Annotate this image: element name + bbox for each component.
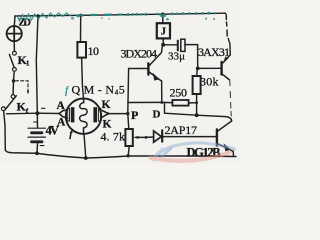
watermark teal dashes on rail bbox=[76, 15, 123, 16]
resistor 250 bbox=[172, 100, 188, 106]
potentiometer 4.7k bbox=[125, 114, 146, 156]
wire right column dashes bbox=[227, 22, 230, 42]
gas sensor QM-N5 body bbox=[66, 99, 101, 134]
node wiper-diode bbox=[145, 136, 148, 139]
transistor Q4 DG12B bbox=[217, 121, 234, 156]
capacitor 33u bbox=[163, 39, 197, 51]
node top rail x38 bbox=[36, 14, 39, 17]
node Q2 base junction bbox=[196, 67, 200, 71]
watermark logo bottom right bbox=[149, 143, 236, 161]
wire right column top corner bbox=[225, 13, 226, 19]
node 30k-D bbox=[195, 113, 199, 117]
node battery top bbox=[35, 111, 39, 115]
transistor Q1 3DX204 bbox=[129, 45, 163, 103]
scan noise overlay bbox=[0, 0, 240, 164]
sensor right electrode bbox=[93, 107, 100, 122]
diode 2AP17 bbox=[146, 130, 216, 142]
wire battery bottom bbox=[36, 142, 39, 154]
sensor QM-N5 leads A bbox=[59, 110, 68, 118]
sensor leads K bbox=[101, 110, 109, 118]
wire left rail lower bbox=[4, 111, 6, 150]
switch Kt bbox=[2, 95, 17, 111]
watermark teal scribble top left bbox=[17, 13, 71, 21]
wire sensor top f bbox=[82, 58, 84, 99]
switch K1 bbox=[9, 51, 16, 71]
resistor 10 bbox=[77, 42, 86, 58]
node battery bottom rail bbox=[35, 151, 39, 155]
wire bottom rail bbox=[5, 150, 236, 158]
wire D line to Q4 collector bbox=[197, 115, 232, 121]
wire horizontal battery node bbox=[7, 112, 38, 115]
wire left rail upper bbox=[13, 16, 16, 26]
sensor heater coil bbox=[80, 99, 88, 135]
node emitter-250 bbox=[160, 101, 163, 104]
wire D drop and D line bbox=[165, 103, 197, 116]
node sensor f rail bbox=[84, 156, 88, 160]
wire top rail to R10 bbox=[80, 15, 82, 42]
watermark teal dots below rail bbox=[71, 15, 215, 20]
lamp ZD bbox=[7, 26, 22, 41]
wire junction to Kt bbox=[12, 81, 14, 95]
wire cap to Q2 base column bbox=[197, 45, 199, 69]
wire sensor bottom f to rail bbox=[84, 134, 86, 158]
node top rail x163 bbox=[161, 13, 164, 16]
wire sensor A feed bbox=[37, 112, 59, 114]
node top rail x81 bbox=[79, 14, 82, 17]
wire emitter line to 250 bbox=[128, 101, 197, 104]
transistor Q2 3AX31 bbox=[222, 43, 232, 116]
wire column to 30k bbox=[196, 68, 199, 76]
node K1-Kt junction bbox=[12, 79, 15, 82]
node battery top junction bbox=[36, 113, 38, 128]
relay J box bbox=[157, 14, 170, 44]
mechanical link dashed with arrow bbox=[16, 81, 30, 95]
node pot bottom rail bbox=[127, 154, 130, 157]
paper background bbox=[0, 0, 240, 164]
wire battery feed from top rail bbox=[36, 16, 38, 113]
resistor 30k bbox=[193, 76, 201, 94]
wire lamp to K1 bbox=[13, 41, 15, 51]
node 250-30k bbox=[195, 101, 198, 104]
sensor left electrode bbox=[67, 107, 74, 122]
node relay collector junction bbox=[161, 43, 165, 47]
battery 4V bbox=[28, 108, 46, 145]
wire K1 to junction bbox=[13, 71, 16, 81]
wire 30k to D line bbox=[196, 94, 198, 115]
wire top rail bbox=[15, 13, 225, 16]
wire Q2 base bbox=[198, 67, 221, 69]
wire Q1 base column down to P bbox=[127, 69, 130, 114]
wire K to P node bbox=[108, 113, 128, 115]
node P junction bbox=[126, 112, 129, 115]
